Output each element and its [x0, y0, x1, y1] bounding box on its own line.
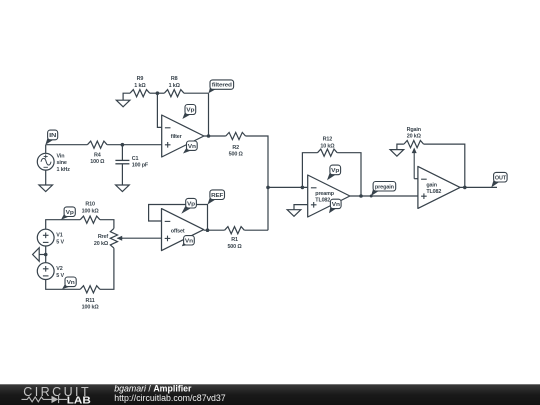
svg-text:Vp: Vp — [331, 168, 340, 174]
svg-text:100 kΩ: 100 kΩ — [82, 305, 100, 311]
svg-text:Vn: Vn — [185, 238, 194, 244]
svg-text:5 V: 5 V — [56, 273, 64, 279]
wire R2 to summing bus — [246, 136, 269, 230]
wire Rref bottom to R11 — [100, 248, 114, 289]
flag Vn of preamp — [329, 205, 337, 213]
wire preamp output to gain + input — [350, 195, 418, 197]
wire offset output to R1 — [204, 229, 225, 231]
svg-text:R10: R10 — [85, 202, 95, 208]
flag filtered — [209, 86, 217, 93]
flag Vp of filter — [182, 111, 191, 119]
flag pregain — [371, 188, 380, 196]
svg-text:100 kΩ: 100 kΩ — [82, 209, 100, 215]
svg-text:R8: R8 — [171, 76, 178, 82]
svg-text:1 kHz: 1 kHz — [57, 167, 71, 173]
ground at divider midpoint — [39, 254, 46, 256]
resistor R8 — [164, 90, 184, 97]
svg-text:1 kΩ: 1 kΩ — [134, 83, 146, 89]
node R12 left junction — [301, 186, 305, 190]
resistor R11 — [80, 286, 100, 293]
svg-text:Vn: Vn — [67, 280, 76, 286]
wire Rref wiper to offset + input — [122, 237, 162, 239]
wire feedback to filter - input — [157, 93, 161, 127]
svg-text:pregain: pregain — [375, 184, 395, 190]
node between V1 and V2 — [44, 253, 48, 257]
flag Vn on divider bottom — [62, 283, 72, 289]
node gain output — [463, 186, 467, 190]
svg-text:100 Ω: 100 Ω — [90, 159, 105, 165]
wire filter output to R2 — [204, 135, 226, 137]
flag REF — [208, 196, 217, 204]
resistor R12 — [318, 149, 338, 156]
logo resistor and diode line — [22, 397, 52, 402]
potentiometer Rref — [110, 228, 117, 248]
node at R4/C1 junction — [121, 143, 125, 147]
wire summing node to preamp - input — [268, 186, 308, 188]
wire offset feedback loop — [149, 205, 208, 231]
svg-text:Rref: Rref — [98, 234, 109, 240]
node filter output — [207, 134, 211, 138]
wire filtered node down to filter output — [208, 93, 210, 136]
wire main input bus from Vin to filter + input — [46, 144, 88, 146]
wire R12 left leg — [302, 153, 317, 188]
wire V1 top to R10 — [46, 220, 80, 230]
op-amp filter — [162, 115, 204, 157]
svg-text:10 kΩ: 10 kΩ — [320, 143, 335, 149]
flag IN — [45, 136, 54, 144]
ground at R9 — [116, 100, 130, 107]
wire Rgain right leg to output — [424, 144, 465, 187]
wire R1 to summing bus — [244, 229, 268, 231]
voltage source V2 5V — [37, 263, 54, 280]
flag Vp on divider top — [61, 213, 71, 220]
node offset output — [206, 228, 210, 232]
svg-text:TL082: TL082 — [315, 198, 330, 204]
svg-text:5 V: 5 V — [56, 240, 64, 246]
svg-text:V2: V2 — [56, 266, 62, 272]
flag Vp of preamp — [327, 171, 337, 180]
wire R8 to filtered node — [184, 92, 209, 94]
svg-text:R2: R2 — [232, 145, 239, 151]
flag OUT — [491, 179, 500, 188]
wire Rgain wiper to gain - input — [414, 178, 418, 180]
resistor R10 — [80, 216, 100, 223]
svg-text:500 Ω: 500 Ω — [229, 152, 244, 158]
svg-text:offset: offset — [171, 229, 185, 235]
voltage source Vin (sine) — [45, 145, 47, 154]
svg-text:C1: C1 — [132, 156, 139, 162]
svg-text:REF: REF — [211, 193, 224, 199]
wire gain output to OUT — [460, 186, 497, 188]
svg-text:Vn: Vn — [188, 144, 197, 150]
svg-text:http://circuitlab.com/c87vd37: http://circuitlab.com/c87vd37 — [114, 393, 226, 403]
svg-text:OUT: OUT — [495, 175, 507, 181]
svg-text:TL082: TL082 — [426, 189, 441, 195]
svg-text:20 kΩ: 20 kΩ — [407, 134, 422, 140]
svg-text:Vn: Vn — [332, 202, 341, 208]
svg-text:R11: R11 — [86, 298, 95, 304]
svg-text:IN: IN — [49, 133, 56, 139]
svg-text:filter: filter — [171, 134, 183, 140]
node pregain tap — [370, 195, 373, 198]
ground at Rgain left — [397, 144, 404, 150]
op-amp preamp — [308, 175, 350, 217]
wire R10 to Rref top — [100, 220, 114, 229]
svg-text:Vp: Vp — [187, 201, 196, 207]
flag Vn of filter — [183, 147, 193, 154]
svg-text:sine: sine — [57, 160, 67, 166]
resistor R4 — [87, 141, 107, 148]
ground at preamp + input — [294, 205, 308, 210]
node summing junction — [266, 186, 270, 190]
potentiometer Rgain — [404, 141, 424, 148]
svg-text:Vp: Vp — [186, 108, 195, 114]
svg-text:R12: R12 — [323, 137, 333, 143]
svg-text:Vin: Vin — [57, 153, 65, 159]
svg-text:Vp: Vp — [66, 210, 75, 216]
wire between V1 and V2 — [45, 246, 47, 263]
svg-text:R4: R4 — [94, 152, 101, 158]
capacitor C1 — [121, 145, 123, 161]
node R12/preamp output junction — [359, 194, 363, 198]
svg-text:V1: V1 — [56, 233, 62, 239]
svg-text:500 Ω: 500 Ω — [227, 244, 242, 250]
resistor R9 — [130, 90, 150, 97]
svg-text:Rgain: Rgain — [407, 127, 421, 133]
svg-text:R9: R9 — [137, 76, 144, 82]
flag Vn of offset — [182, 242, 190, 247]
resistor R1 — [225, 227, 245, 234]
svg-text:filtered: filtered — [212, 83, 233, 89]
svg-text:100 pF: 100 pF — [132, 163, 149, 169]
svg-text:gain: gain — [426, 182, 436, 188]
svg-text:1 kΩ: 1 kΩ — [169, 83, 181, 89]
svg-text:preamp: preamp — [315, 191, 334, 197]
wire R11 to V2 bottom — [46, 280, 80, 290]
svg-text:20 kΩ: 20 kΩ — [94, 241, 109, 247]
svg-text:R1: R1 — [231, 237, 238, 243]
op-amp gain — [418, 166, 460, 208]
node R9/R8 junction — [150, 92, 165, 94]
flag Vp of offset — [181, 205, 192, 214]
wire R12 right leg — [337, 153, 361, 196]
op-amp offset — [162, 209, 204, 251]
ground under C1 — [116, 185, 130, 192]
resistor R2 — [226, 132, 246, 139]
ground under Vin — [39, 185, 53, 192]
svg-text:LAB: LAB — [67, 395, 91, 405]
voltage source V1 5V — [37, 229, 54, 246]
